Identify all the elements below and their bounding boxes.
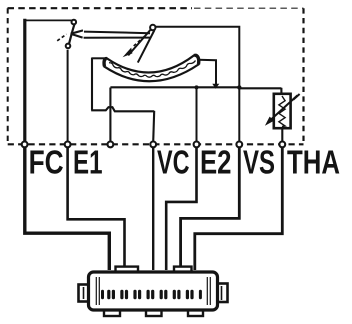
wiper arrow head: [123, 48, 133, 58]
svg-text:FC: FC: [29, 144, 64, 181]
terminal node THA: [279, 142, 285, 148]
wire wiper to VS: [155, 27, 239, 147]
thermistor diagonal arrow: [270, 95, 297, 120]
resistive track wavy element: [109, 61, 196, 78]
switch motion dashes: [57, 34, 66, 41]
terminal node VS: [236, 142, 242, 148]
connector top tab left: [116, 267, 139, 276]
wire switch top feed: [24, 19, 72, 21]
wire E2 vertical inside box: [196, 87, 198, 147]
connector body: [89, 272, 218, 310]
wiper pivot: [150, 25, 155, 30]
switch contact top: [72, 20, 77, 25]
switch contact bottom: [66, 44, 71, 49]
junction triangle track-right: [212, 84, 219, 89]
junction dot VS: [237, 85, 241, 89]
connector end hatch left: [96, 277, 99, 305]
terminal node FC: [22, 142, 28, 148]
connector bottom tab 2: [146, 303, 162, 316]
connector bottom tab 1: [104, 303, 120, 316]
wire track right end: [198, 60, 216, 84]
svg-text:VC: VC: [157, 144, 190, 181]
wire E1 to connector: [68, 147, 125, 270]
dashed component box left edge: [7, 8, 9, 144]
connector left ear: [79, 285, 91, 302]
wire VC vertical to node: [153, 111, 154, 142]
svg-text:VS: VS: [243, 144, 275, 181]
wire FC to connector: [25, 147, 110, 270]
actuator arrow shaft: [84, 32, 150, 38]
thermistor THA body: [274, 94, 291, 128]
connector right ear slot: [221, 286, 223, 300]
wire VC riser left: [91, 58, 93, 111]
terminal node VC: [150, 142, 156, 148]
wire ground horizontal: [110, 87, 281, 88]
wire track left end: [92, 57, 107, 59]
thermistor arrow tail tick: [293, 94, 299, 100]
wire THA to connector: [195, 147, 282, 270]
thermistor top lead: [280, 88, 282, 94]
wire FC thick vertical inside box: [23, 19, 26, 147]
wire VC horizontal: [91, 107, 154, 111]
thermistor zigzag: [279, 96, 285, 127]
terminal node E2: [194, 142, 200, 148]
svg-text:E1: E1: [73, 144, 103, 181]
thermistor arrow head: [265, 117, 274, 126]
connector end hatch right: [207, 277, 210, 305]
wire VC to connector: [152, 147, 154, 270]
dashed component box bottom edge: [8, 143, 304, 145]
connector top tab right: [174, 267, 192, 276]
actuator arrow head: [71, 30, 83, 37]
wiper arm: [128, 30, 154, 63]
resistive track cap right: [194, 55, 199, 64]
svg-text:THA: THA: [287, 144, 340, 181]
connector right ear: [216, 284, 228, 303]
connector bottom tab 3: [188, 303, 203, 316]
wiper dashed arrow: [133, 33, 149, 47]
switch blade: [69, 24, 75, 44]
svg-text:E2: E2: [200, 144, 232, 181]
terminal node E1: [65, 142, 71, 148]
connector left ear slot: [83, 287, 85, 299]
dashed component box top edge: [8, 7, 193, 9]
thermistor bottom lead: [281, 128, 283, 142]
wire ground riser: [109, 88, 111, 143]
terminal node E21: [108, 142, 114, 148]
junction dot E2: [195, 85, 199, 89]
resistive track band: [104, 55, 199, 81]
dashed component box right edge: [302, 8, 304, 141]
resistive track cap left: [104, 59, 107, 67]
wire VS to connector: [181, 147, 240, 266]
connector pins: [101, 290, 202, 299]
wire E1 vertical inside box: [67, 50, 69, 147]
wire E2 to connector: [166, 147, 196, 270]
